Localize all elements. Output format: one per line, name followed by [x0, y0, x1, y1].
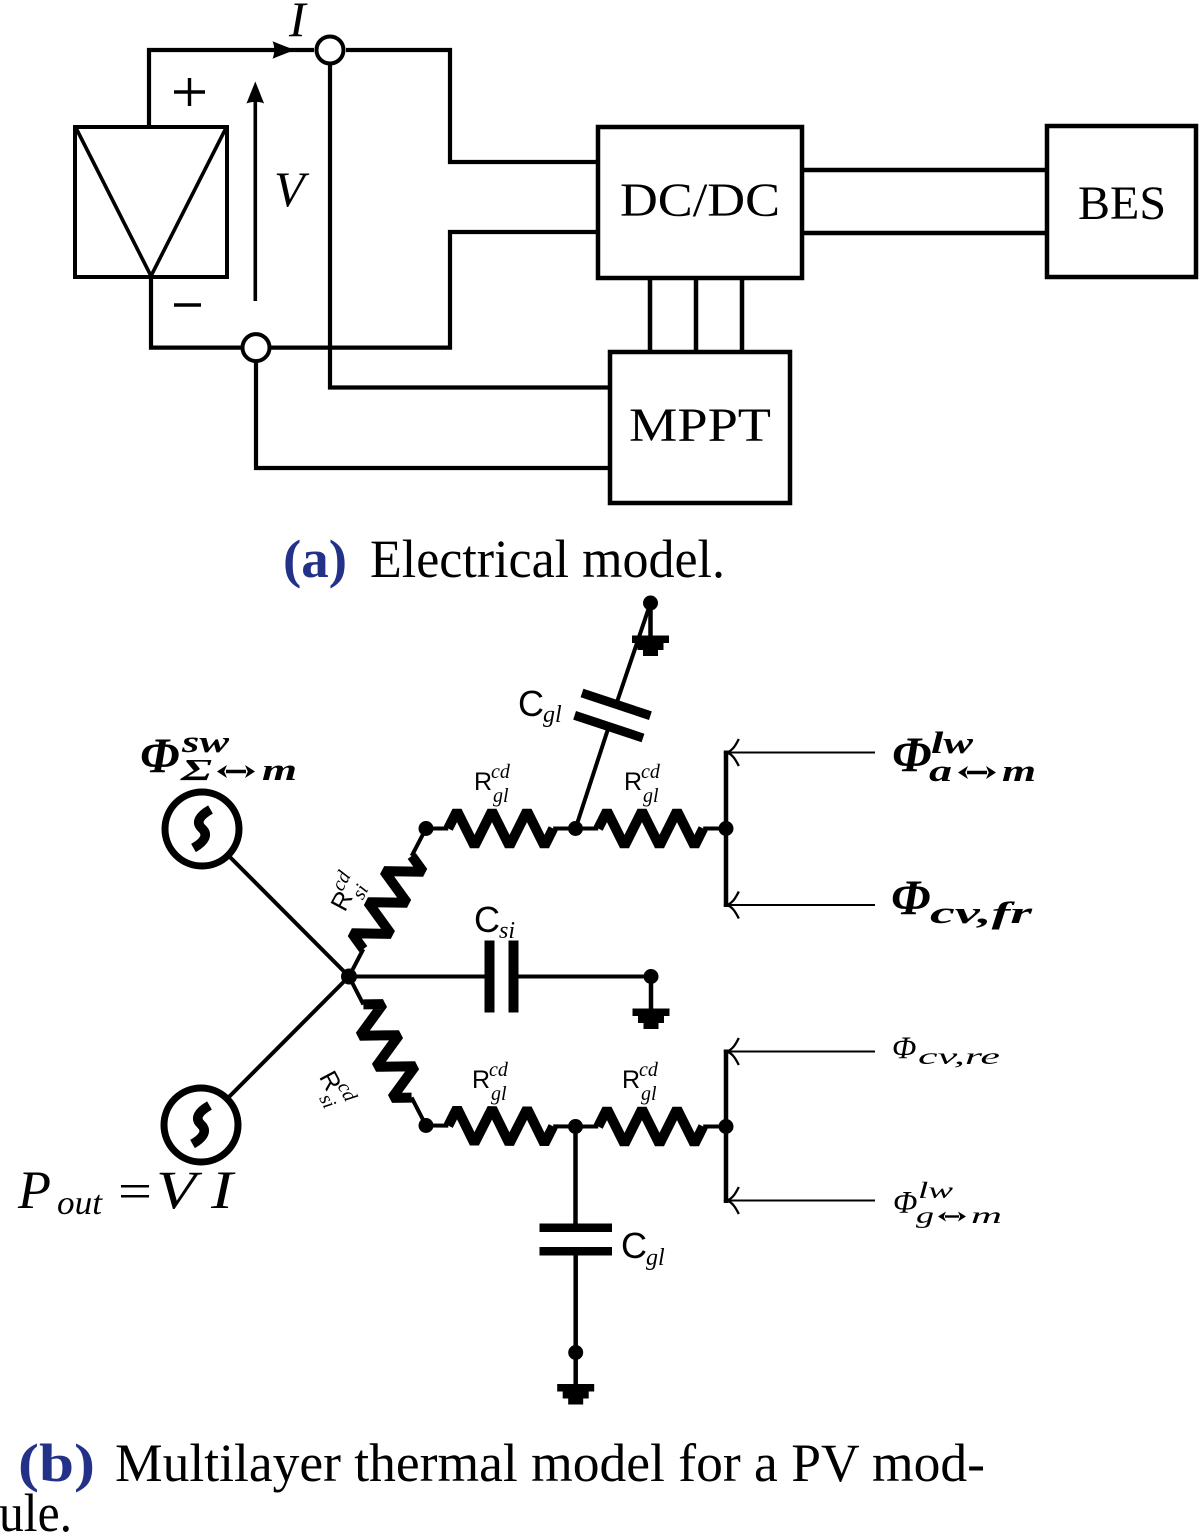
DC/DC block [598, 127, 802, 278]
svg-text:cd: cd [641, 761, 661, 783]
label Rcd_gl bottom-right [622, 1059, 659, 1105]
svg-text:C: C [621, 1225, 647, 1266]
svg-text:R: R [472, 1066, 490, 1094]
bus DC/DC to BES (wire 1) [802, 168, 1047, 173]
svg-text:out: out [57, 1185, 104, 1222]
wire node I to DC/DC top terminal [346, 50, 598, 162]
resistor Rcd_si upper [349, 829, 426, 977]
current arrow I [273, 41, 295, 58]
capacitor Cgl top (on diagonal) [582, 693, 650, 716]
label Phi_lw_am [892, 725, 1036, 788]
bottom ground [557, 1353, 594, 1405]
svg-text:cd: cd [491, 761, 511, 783]
BES block [1047, 126, 1196, 277]
svg-text:DC/DC: DC/DC [620, 174, 780, 227]
source Pout (circle with squiggle) [164, 1088, 238, 1162]
svg-text:gl: gl [641, 1083, 657, 1105]
resistor Rcd_si lower [349, 977, 426, 1126]
arrow line Phi_cv_fr [727, 892, 875, 919]
wire PV+ to node I [149, 50, 314, 127]
svg-text:ule.: ule. [0, 1483, 72, 1532]
label Pout = VI [17, 1160, 237, 1222]
PV panel symbol [75, 127, 227, 277]
label Rcd_gl bottom-left [472, 1059, 509, 1105]
svg-text:gl: gl [543, 702, 562, 728]
svg-text:Φ: Φ [891, 869, 930, 925]
minus sign [174, 303, 201, 306]
svg-text:cd: cd [489, 1059, 509, 1081]
label Rcd_gl top-left [474, 761, 511, 807]
label Phi_cv_fr [891, 869, 1034, 930]
svg-text:=: = [118, 1163, 152, 1219]
svg-text:MPPT: MPPT [629, 399, 771, 452]
svg-text:a: a [929, 753, 952, 788]
label Phi_lw_gm [893, 1178, 1002, 1228]
wire node 2 to DC/DC bottom terminal [270, 232, 598, 348]
svg-text:m: m [1002, 753, 1036, 788]
svg-text:cv,re: cv,re [918, 1044, 1000, 1069]
bracket bottom (node C2) [724, 1050, 729, 1204]
resistor Rcd_gl top-left [426, 811, 576, 846]
wire node 2 down to MPPT [256, 361, 610, 468]
svg-text:R: R [624, 768, 642, 796]
capacitor Csi wire left [349, 975, 485, 979]
central node [341, 969, 357, 985]
node A2 [419, 1118, 434, 1133]
caption (b) line 1 [18, 1433, 985, 1493]
bottom ground node dot [568, 1345, 583, 1360]
svg-text:R: R [622, 1066, 640, 1094]
svg-text:Φ: Φ [892, 726, 931, 782]
svg-text:Φ: Φ [893, 1184, 917, 1220]
wire PV- to node 2 [151, 277, 242, 348]
label Phi_sw_Sigma-m [140, 724, 297, 787]
svg-text:(a): (a) [283, 529, 347, 589]
resistor Rcd_gl bottom-left [426, 1108, 576, 1144]
voltage arrow V [247, 82, 265, 302]
label Rcd_si lower (rotated) [305, 1063, 361, 1116]
arrow line Phi_lw_am [727, 739, 875, 766]
wire bottom capacitor to bottom ground [573, 1251, 578, 1352]
node C1 [719, 821, 734, 836]
svg-text:Σ: Σ [179, 752, 212, 787]
caption (a) [283, 529, 725, 589]
wire source Pout to central node [201, 977, 349, 1126]
svg-text:P: P [17, 1160, 51, 1220]
top ground node dot [643, 596, 658, 611]
label Csi [474, 899, 515, 944]
resistor Rcd_gl bottom-right [576, 1109, 727, 1144]
svg-text:gl: gl [493, 785, 509, 807]
svg-text:m: m [262, 752, 297, 787]
node C2 [719, 1119, 734, 1134]
label Rcd_si upper (rotated) [319, 867, 375, 920]
svg-text:cd: cd [639, 1059, 659, 1081]
label Rcd_gl top-right [624, 761, 661, 807]
svg-text:lw: lw [918, 1178, 954, 1203]
svg-text:I: I [288, 0, 308, 47]
label Cgl top [518, 683, 562, 728]
label Phi_cv_re [892, 1030, 1000, 1070]
svg-text:Electrical model.: Electrical model. [370, 529, 725, 589]
middle ground [633, 977, 670, 1030]
capacitor Csi wire right [518, 975, 651, 979]
top ground [632, 603, 669, 656]
node A1 [419, 821, 434, 836]
svg-text:gl: gl [643, 785, 659, 807]
node I (open circle) [317, 37, 344, 64]
label Cgl bottom [621, 1225, 665, 1271]
middle ground node dot [644, 969, 659, 984]
svg-text:m: m [971, 1203, 1002, 1228]
bracket top (node C1) [724, 751, 729, 908]
arrow line Phi_cv_re [727, 1038, 875, 1065]
control wires DC/DC to MPPT [650, 278, 742, 352]
svg-text:si: si [499, 918, 515, 944]
node B2 [568, 1119, 583, 1134]
svg-text:Multilayer thermal model for a: Multilayer thermal model for a PV mod- [115, 1433, 985, 1493]
svg-text:C: C [518, 683, 544, 724]
svg-text:g: g [916, 1203, 934, 1228]
svg-text:R: R [474, 768, 492, 796]
svg-text:BES: BES [1078, 177, 1166, 230]
source Phi_sw (circle with squiggle) [165, 792, 239, 866]
wire source Phi-sw to central node [202, 829, 349, 977]
node B1 [568, 821, 583, 836]
wire node I down to MPPT [330, 64, 610, 388]
arrow line Phi_lw_gm [727, 1187, 875, 1214]
svg-text:cv,fr: cv,fr [930, 895, 1034, 930]
svg-text:gl: gl [646, 1245, 665, 1271]
svg-text:gl: gl [491, 1083, 507, 1105]
svg-text:V I: V I [156, 1160, 237, 1220]
svg-text:Φ: Φ [140, 727, 179, 783]
plus sign [174, 78, 205, 106]
resistor Rcd_gl top-right [576, 811, 727, 846]
svg-text:C: C [474, 899, 500, 940]
bus DC/DC to BES (wire 2) [802, 231, 1047, 236]
node 2 (open circle) [243, 334, 270, 361]
MPPT block [610, 352, 790, 503]
capacitor Cgl bottom [540, 1224, 613, 1233]
capacitor Csi [509, 941, 519, 1013]
svg-text:Φ: Φ [892, 1030, 916, 1066]
wire B2 down to bottom capacitor [573, 1127, 578, 1228]
wire B1 diagonal to top ground (split at capacitor) [576, 603, 651, 829]
